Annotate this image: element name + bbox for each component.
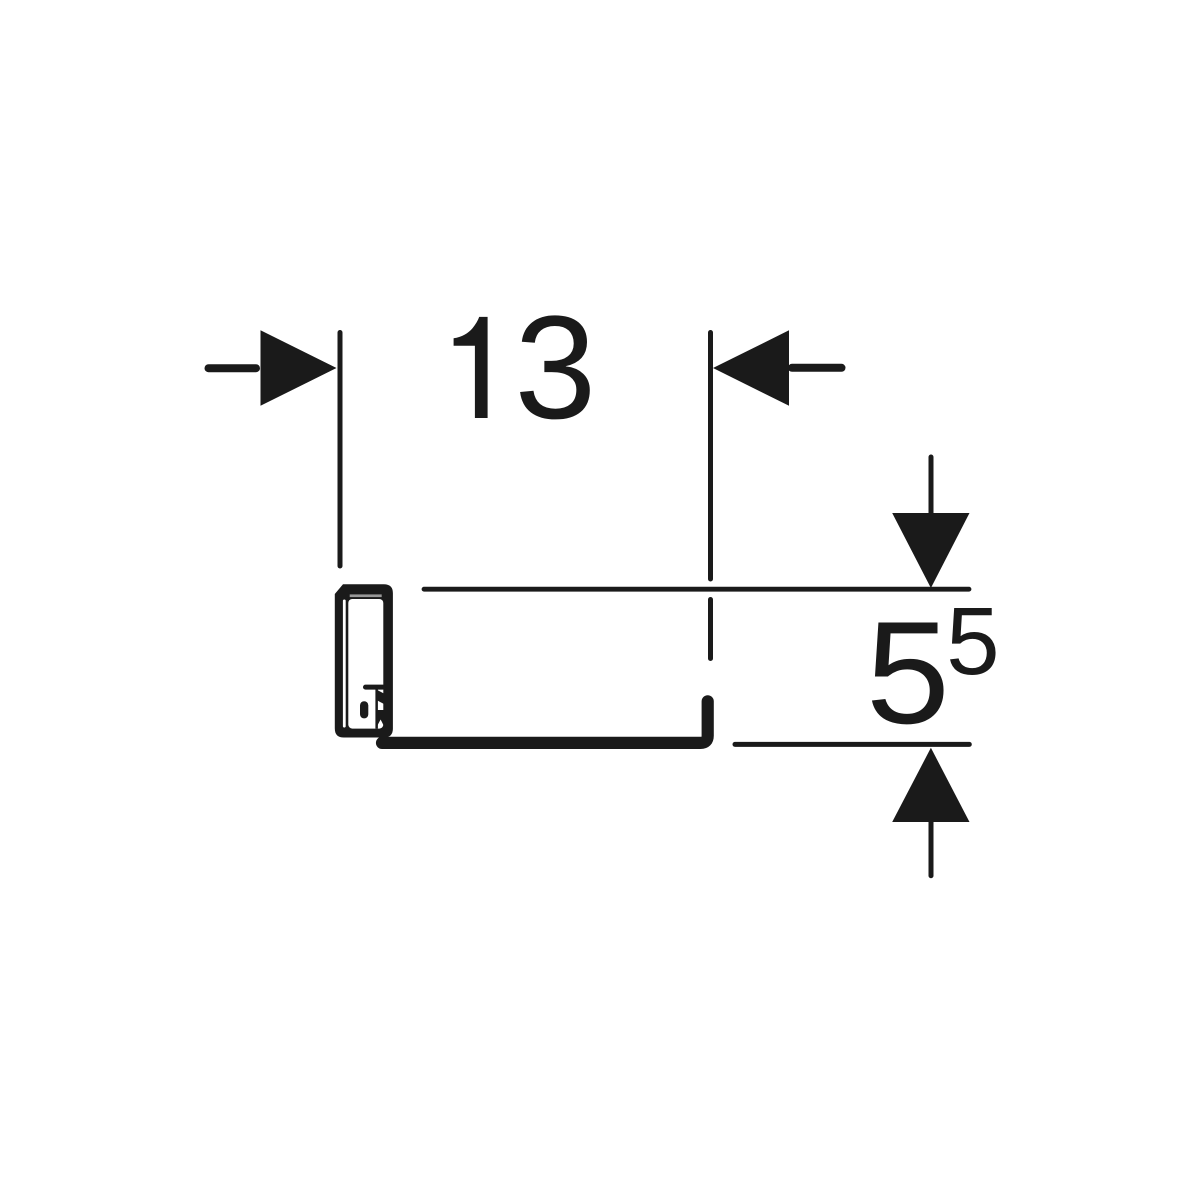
dimension 13: left arrow tail bbox=[209, 364, 257, 372]
dimension 5.5: down arrow line bbox=[929, 457, 934, 513]
dimension 5.5: value text "5" bbox=[872, 623, 944, 725]
dimension 13: right extension line lower segment bbox=[708, 600, 713, 659]
dimension 5.5: down arrowhead bbox=[892, 513, 969, 588]
rail profile inner detail: horizontal bar bbox=[366, 685, 384, 690]
dimension 13: right arrowhead bbox=[713, 330, 789, 406]
dimension 13: left extension line bbox=[338, 333, 343, 567]
dimension 13: right arrow tail bbox=[792, 364, 842, 372]
rail profile left wall slot (white) bbox=[343, 600, 346, 728]
rail profile inner detail: diagonal wedge bbox=[377, 690, 384, 704]
dimension 13: right extension line upper segment bbox=[708, 333, 713, 580]
rail profile outer shell (filled) bbox=[335, 584, 393, 737]
dimension 13: value text digit "1" bbox=[454, 317, 488, 418]
dimension 5.5: up arrowhead bbox=[892, 748, 969, 822]
dimension 13: left arrowhead bbox=[261, 330, 337, 406]
dimension 5.5: top reference line bbox=[424, 587, 969, 592]
rail profile interior (white) bbox=[348, 599, 383, 729]
dimension 5.5: bottom reference line bbox=[735, 742, 969, 747]
rail profile inner top line (gray) bbox=[350, 594, 382, 597]
rail profile inner detail: oval slot bbox=[360, 701, 368, 718]
rail profile inner detail: notched block bbox=[377, 710, 384, 726]
dimension 5.5: superscript "5" bbox=[950, 608, 996, 675]
dimension 5.5: up arrow line bbox=[929, 822, 934, 876]
rail profile inner detail: thin vertical line bbox=[375, 688, 378, 729]
rail bottom flange with upturned right lip bbox=[382, 701, 708, 743]
dimension 13: value text digit "3" bbox=[520, 315, 590, 419]
